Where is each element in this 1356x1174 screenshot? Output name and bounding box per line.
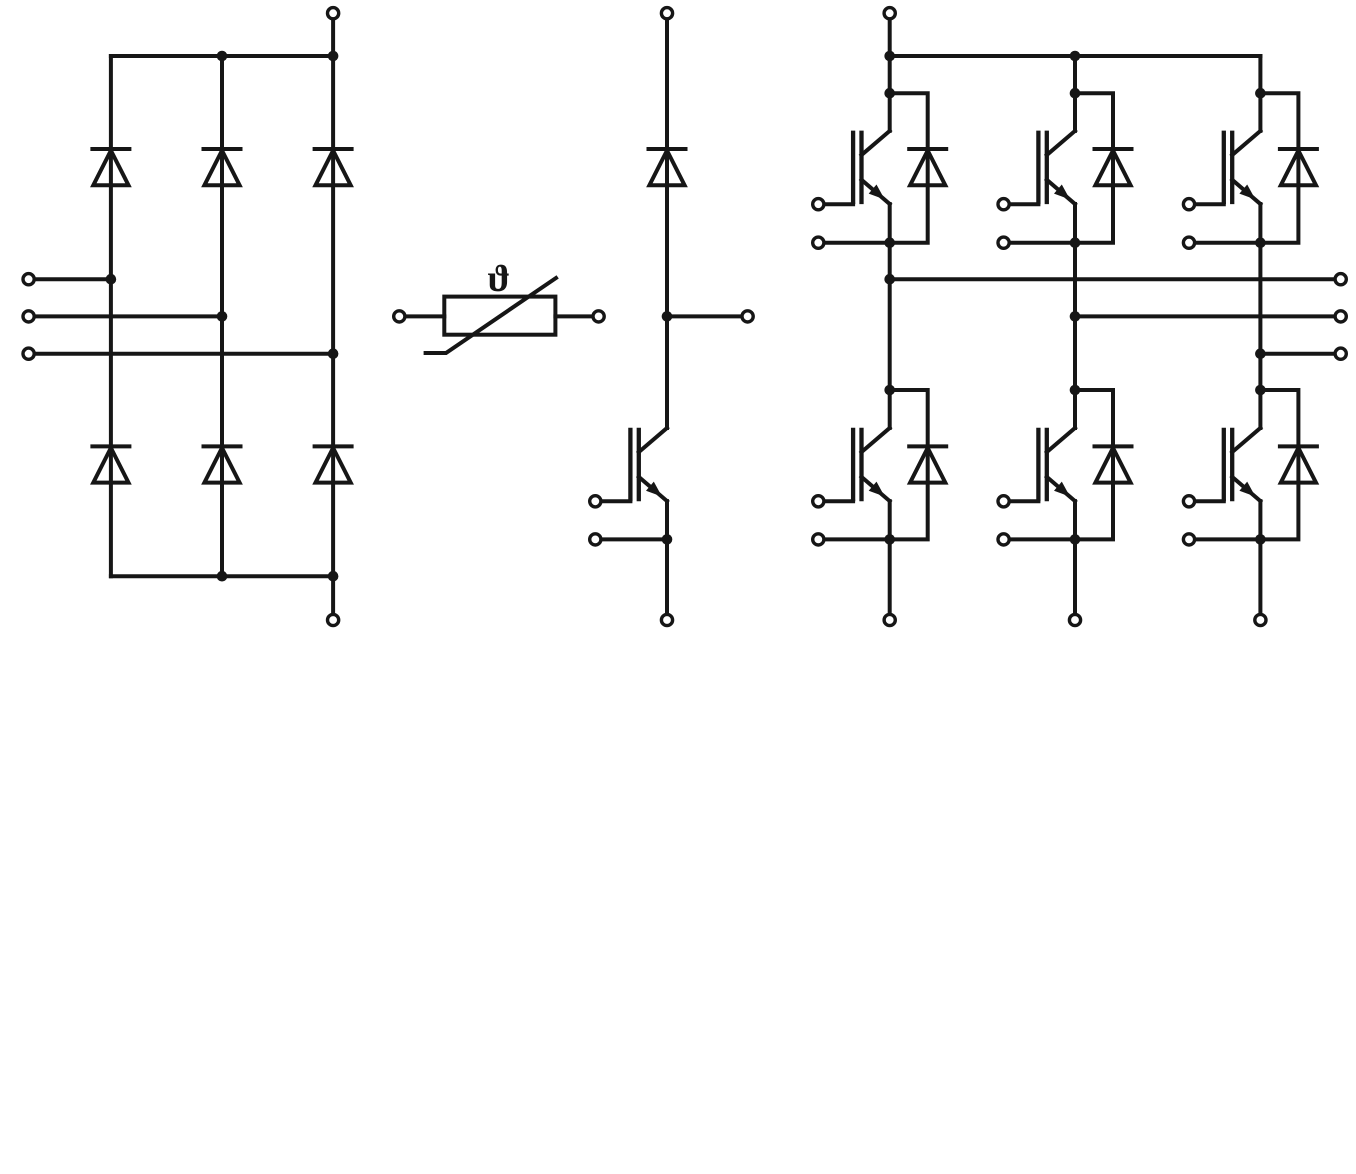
wire: leg A upper aux-emitter lead	[824, 241, 890, 245]
wire: leg C upper aux-emitter lead	[1195, 241, 1261, 245]
wire: chopper gate lead	[601, 499, 631, 503]
junction: leg A lower emitter	[884, 534, 895, 545]
junction: bottom bus / leg 3	[328, 571, 339, 582]
wire: leg A lower emitter	[888, 501, 892, 614]
diode D4 (rectifier lower, leg 1)	[92, 446, 129, 482]
wire: rectifier DC+ top bus	[111, 54, 333, 58]
terminal: AC input L2	[23, 311, 34, 322]
terminal: phase output W	[1335, 348, 1346, 359]
junction: L3 input / leg 3	[328, 348, 339, 359]
junction: leg C lower emitter	[1255, 534, 1266, 545]
terminal: gate G5	[998, 496, 1009, 507]
wire: leg B lower collector	[1073, 390, 1077, 428]
wire: inverter DC+ top bus	[890, 54, 1261, 58]
junction: leg C upper emitter	[1255, 237, 1266, 248]
wire: leg A upper collector	[888, 56, 892, 131]
terminal: aux emitter E6	[1183, 534, 1194, 545]
wire: leg C lower aux-emitter lead	[1195, 537, 1261, 541]
terminal: gate G6	[1183, 496, 1194, 507]
junction: leg B upper emitter	[1070, 237, 1081, 248]
wire: leg B lower emitter	[1073, 501, 1077, 614]
wire: leg A lower gate lead	[824, 499, 853, 503]
diode D2 (rectifier upper, leg 2)	[204, 149, 241, 185]
junction: leg B upper collector	[1070, 88, 1081, 99]
terminal: chopper aux emitter	[590, 534, 601, 545]
junction: chopper mid node	[662, 311, 673, 322]
wire: leg C lower diode branch	[1260, 390, 1298, 539]
wire: phase V output	[1075, 314, 1335, 318]
junction: phase W tap	[1255, 348, 1266, 359]
junction: chopper aux emitter	[662, 534, 673, 545]
wire: chopper aux-emitter lead	[601, 537, 667, 541]
terminal: rectifier DC-	[328, 614, 339, 625]
wire: leg A lower collector	[888, 390, 892, 428]
terminal: chopper brake output	[742, 311, 753, 322]
wire: leg B upper gate lead	[1009, 202, 1038, 206]
wire: phase W output	[1260, 352, 1335, 356]
transistor Q1 (upper IGBT, leg A)	[853, 131, 890, 205]
wire: leg B lower gate lead	[1009, 499, 1038, 503]
wire: phase U output	[890, 277, 1335, 281]
wire: chopper IGBT collector lead	[665, 316, 669, 428]
wire: leg A lower aux-emitter lead	[824, 537, 890, 541]
transistor Q5 (lower IGBT, leg B)	[1038, 428, 1075, 502]
terminal: gate G4	[813, 496, 824, 507]
junction: inverter top bus / leg B	[1070, 51, 1081, 62]
wire: thermistor left lead	[405, 314, 444, 318]
diode D5 (rectifier lower, leg 2)	[204, 446, 241, 482]
wire: leg A lower diode branch	[890, 390, 928, 539]
terminal: aux emitter E1	[813, 237, 824, 248]
terminal: chopper gate	[590, 496, 601, 507]
wire: rectifier leg 1 vertical	[109, 56, 113, 576]
diode D21 (freewheel, lower leg A)	[909, 446, 946, 482]
thermistor RT1 diagonal stroke	[426, 278, 556, 353]
transistor Q7 (brake chopper IGBT)	[630, 428, 667, 502]
diode D11 (freewheel, upper leg A)	[909, 149, 946, 185]
terminal: inverter DC+	[884, 8, 895, 19]
wire: DC- terminal lead	[331, 576, 335, 614]
wire: rectifier leg 2 vertical	[220, 56, 224, 576]
wire: chopper emitter lead	[665, 501, 669, 614]
junction: L1 input / leg 1	[106, 274, 117, 285]
diode D7 (brake freewheel)	[649, 149, 686, 185]
junction: phase U tap	[884, 274, 895, 285]
wire: leg A upper gate lead	[824, 202, 853, 206]
wire: leg B upper collector	[1073, 56, 1077, 131]
wire: DC+ terminal lead	[331, 19, 335, 56]
wire: leg C upper collector	[1258, 56, 1262, 131]
wire: chopper collector branch	[665, 19, 669, 317]
terminal: aux emitter E5	[998, 534, 1009, 545]
terminal: aux emitter E4	[813, 534, 824, 545]
terminal: AC input L1	[23, 274, 34, 285]
label: temperature symbol (theta glyph)	[488, 265, 509, 292]
junction: leg C upper collector	[1255, 88, 1266, 99]
terminal: aux emitter E2	[998, 237, 1009, 248]
diode D1 (rectifier upper, leg 1)	[92, 149, 129, 185]
transistor Q2 (upper IGBT, leg B)	[1038, 131, 1075, 205]
junction: leg A upper emitter	[884, 237, 895, 248]
terminal: thermistor T2	[593, 311, 604, 322]
diode D6 (rectifier lower, leg 3)	[315, 446, 352, 482]
terminal: emitter output W-	[1255, 614, 1266, 625]
terminal: emitter output V-	[1069, 614, 1080, 625]
transistor Q3 (upper IGBT, leg C)	[1224, 131, 1261, 205]
wire: chopper mid terminal lead	[667, 314, 742, 318]
wire: inverter DC+ terminal lead	[888, 19, 892, 56]
junction: top bus / leg 3	[328, 51, 339, 62]
wire: leg B upper aux-emitter lead	[1009, 241, 1075, 245]
wire: leg A upper emitter	[888, 204, 892, 390]
terminal: phase output U	[1335, 274, 1346, 285]
terminal: chopper top (DC+)	[661, 8, 672, 19]
diode D23 (freewheel, lower leg C)	[1280, 446, 1317, 482]
transistor Q4 (lower IGBT, leg A)	[853, 428, 890, 502]
junction: leg B lower collector	[1070, 385, 1081, 396]
junction: top bus / leg 2	[217, 51, 228, 62]
terminal: phase output V	[1335, 311, 1346, 322]
terminal: thermistor T1	[394, 311, 405, 322]
terminal: aux emitter E3	[1183, 237, 1194, 248]
wire: AC input L2	[34, 314, 222, 318]
wire: AC input L3	[34, 352, 333, 356]
diode D12 (freewheel, upper leg B)	[1095, 149, 1132, 185]
junction: leg C lower collector	[1255, 385, 1266, 396]
terminal: gate G1	[813, 199, 824, 210]
junction: phase V tap	[1070, 311, 1081, 322]
wire: leg B lower diode branch	[1075, 390, 1113, 539]
diode D22 (freewheel, lower leg B)	[1095, 446, 1132, 482]
wire: leg C lower emitter	[1258, 501, 1262, 614]
wire: leg A upper diode branch	[890, 93, 928, 243]
junction: inverter top bus / leg A	[884, 51, 895, 62]
junction: L2 input / leg 2	[217, 311, 228, 322]
junction: leg A lower collector	[884, 385, 895, 396]
terminal: AC input L3	[23, 348, 34, 359]
terminal: rectifier DC+	[328, 8, 339, 19]
junction: bottom bus / leg 2	[217, 571, 228, 582]
wire: leg C upper gate lead	[1195, 202, 1224, 206]
wire: rectifier leg 3 vertical	[331, 56, 335, 576]
wire: leg C lower collector	[1258, 390, 1262, 428]
thermistor RT1 body	[444, 297, 555, 335]
wire: thermistor right lead	[555, 314, 593, 318]
wire: leg B upper diode branch	[1075, 93, 1113, 243]
terminal: gate G2	[998, 199, 1009, 210]
junction: leg B lower emitter	[1070, 534, 1081, 545]
diode D13 (freewheel, upper leg C)	[1280, 149, 1317, 185]
wire: rectifier DC- bottom bus	[111, 574, 333, 578]
wire: leg C upper diode branch	[1260, 93, 1298, 243]
terminal: emitter output U-	[884, 614, 895, 625]
wire: leg C upper emitter	[1258, 204, 1262, 390]
diode D3 (rectifier upper, leg 3)	[315, 149, 352, 185]
junction: leg A upper collector	[884, 88, 895, 99]
wire: leg B lower aux-emitter lead	[1009, 537, 1075, 541]
wire: leg B upper emitter	[1073, 204, 1077, 390]
terminal: gate G3	[1183, 199, 1194, 210]
wire: AC input L1	[34, 277, 111, 281]
terminal: chopper bottom (DC-)	[661, 614, 672, 625]
transistor Q6 (lower IGBT, leg C)	[1224, 428, 1261, 502]
wire: leg C lower gate lead	[1195, 499, 1224, 503]
